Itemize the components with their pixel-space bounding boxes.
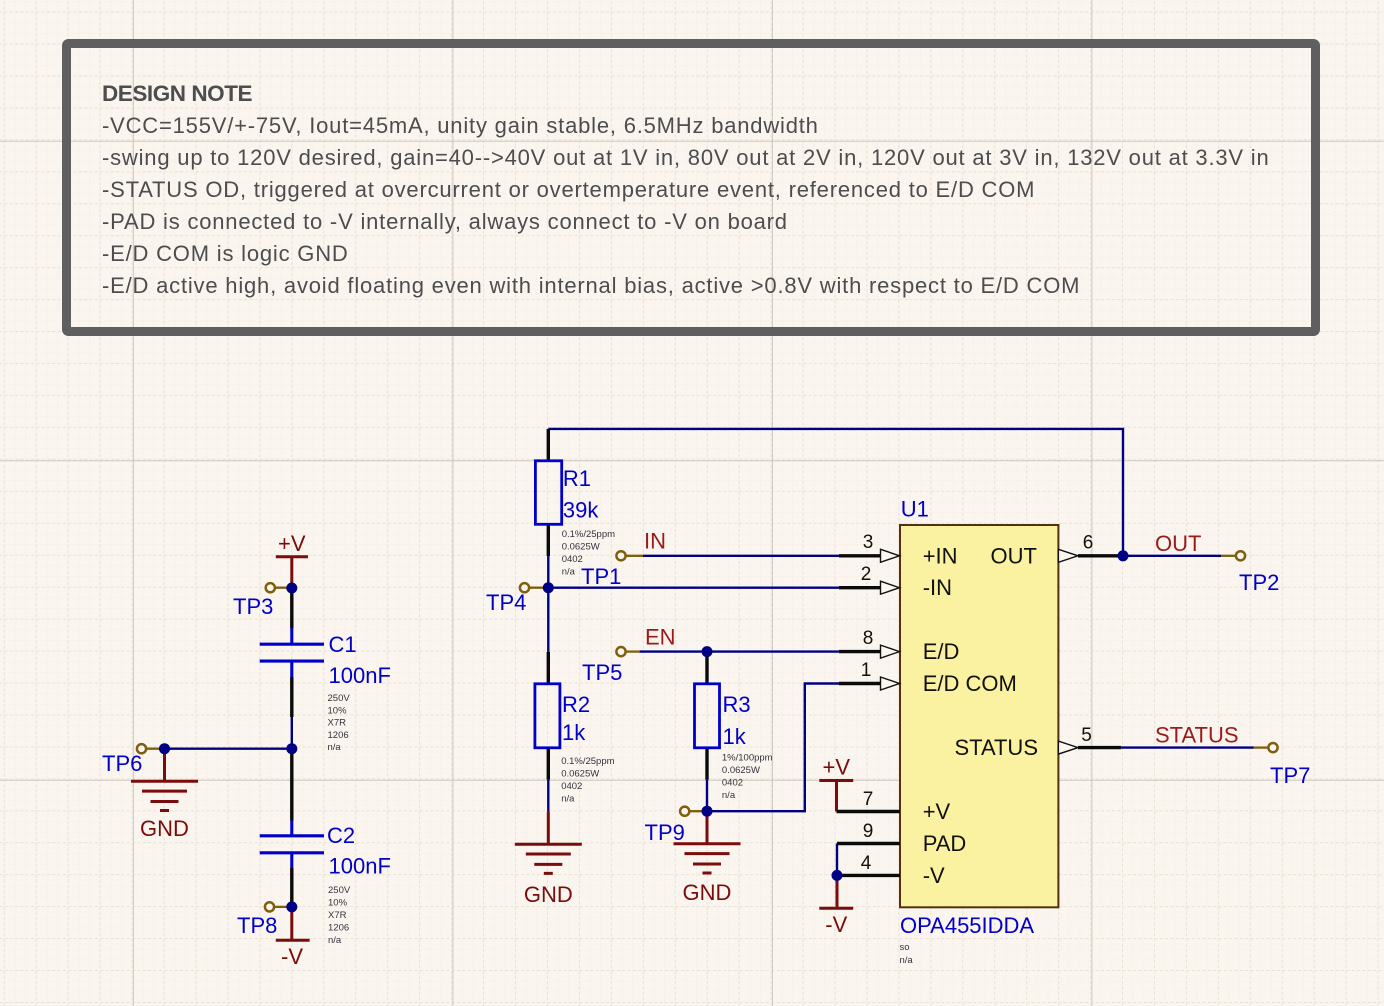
svg-text:C2: C2 xyxy=(327,823,355,848)
pin 8 E/D xyxy=(839,628,959,664)
svg-text:6: 6 xyxy=(1083,533,1094,554)
wire: R3 bottom to TP9 node xyxy=(706,780,708,811)
svg-text:GND: GND xyxy=(683,880,732,905)
ground symbol under R2 xyxy=(515,812,582,907)
pin 6 OUT xyxy=(991,533,1123,569)
ground symbol under R3 xyxy=(674,811,741,905)
svg-text:5: 5 xyxy=(1081,725,1092,746)
svg-text:0402: 0402 xyxy=(561,781,582,792)
svg-text:PAD: PAD xyxy=(923,831,967,856)
power symbol +V (left) xyxy=(276,531,308,588)
svg-text:0402: 0402 xyxy=(562,554,583,565)
svg-text:0.1%/25ppm: 0.1%/25ppm xyxy=(561,756,614,767)
svg-text:n/a: n/a xyxy=(900,955,914,966)
svg-text:n/a: n/a xyxy=(328,935,342,946)
svg-text:39k: 39k xyxy=(563,498,599,523)
svg-text:n/a: n/a xyxy=(561,794,575,805)
svg-text:E/D: E/D xyxy=(923,639,960,664)
op-amp U1 OPA455IDDA xyxy=(900,497,1059,967)
test point TP3 xyxy=(233,583,292,619)
svg-text:2: 2 xyxy=(861,564,872,585)
svg-text:9: 9 xyxy=(863,821,874,842)
capacitor C1 xyxy=(260,628,391,753)
wire: +V node to C1 xyxy=(290,588,293,628)
test point TP1 xyxy=(581,551,643,589)
svg-text:1: 1 xyxy=(861,660,872,681)
resistor R2 xyxy=(535,652,615,805)
svg-text:X7R: X7R xyxy=(328,910,347,921)
svg-text:GND: GND xyxy=(140,816,189,841)
wire: EN net to pin 8 xyxy=(639,650,839,652)
wire: OUT node to TP2 xyxy=(1123,555,1221,557)
junction at TP6/GND xyxy=(159,743,170,754)
svg-text:GND: GND xyxy=(524,882,573,907)
svg-text:OPA455IDDA: OPA455IDDA xyxy=(900,913,1034,938)
wire: -IN node TP4 to pin 2 xyxy=(548,587,839,589)
svg-text:8: 8 xyxy=(863,628,874,649)
wire: E/D COM pin 1 to TP9 node xyxy=(707,684,839,812)
svg-text:-PAD is connected to -V intern: -PAD is connected to -V internally, alwa… xyxy=(102,209,788,234)
pin 9 PAD xyxy=(837,821,966,856)
svg-text:OUT: OUT xyxy=(991,543,1037,568)
test point TP6 xyxy=(102,744,165,776)
svg-text:1k: 1k xyxy=(562,720,586,745)
power symbol +V (right) xyxy=(819,755,853,812)
pin 5 STATUS xyxy=(954,725,1121,760)
svg-text:+IN: +IN xyxy=(923,543,958,568)
svg-text:TP5: TP5 xyxy=(582,660,622,685)
power symbol -V (right) xyxy=(819,875,853,937)
svg-text:0402: 0402 xyxy=(722,778,743,789)
pin 2 -IN xyxy=(839,564,952,600)
svg-text:-STATUS OD, triggered at overc: -STATUS OD, triggered at overcurrent or … xyxy=(102,177,1035,202)
svg-text:TP2: TP2 xyxy=(1239,570,1279,595)
design note box xyxy=(67,44,1316,332)
svg-text:n/a: n/a xyxy=(722,790,736,801)
svg-text:TP9: TP9 xyxy=(645,820,685,845)
wire: feedback from R1 top to OUT node xyxy=(548,429,1123,556)
svg-text:TP7: TP7 xyxy=(1270,763,1310,788)
wire: IN net to pin 3 xyxy=(643,555,839,557)
svg-text:250V: 250V xyxy=(328,693,351,704)
pin 3 +IN xyxy=(839,532,958,568)
svg-text:n/a: n/a xyxy=(328,742,342,753)
svg-text:10%: 10% xyxy=(328,898,348,909)
pin 1 E/D COM xyxy=(839,660,1017,696)
svg-text:TP1: TP1 xyxy=(581,564,621,589)
wire: R2 bottom to GND xyxy=(547,780,549,812)
svg-text:-E/D active high, avoid floati: -E/D active high, avoid floating even wi… xyxy=(102,273,1080,298)
svg-text:7: 7 xyxy=(863,789,874,810)
junction at PAD/-V xyxy=(832,870,843,881)
junction at +V/TP3 xyxy=(286,583,297,594)
junction at -IN/TP4 xyxy=(543,582,554,593)
svg-text:EN: EN xyxy=(645,625,676,650)
wire: C1 to C2 node chain xyxy=(290,677,293,717)
svg-text:n/a: n/a xyxy=(562,567,576,578)
capacitor C2 xyxy=(260,821,391,947)
svg-text:-VCC=155V/+-75V, Iout=45mA, un: -VCC=155V/+-75V, Iout=45mA, unity gain s… xyxy=(102,113,819,138)
test point TP2 xyxy=(1221,551,1279,595)
svg-text:+V: +V xyxy=(823,755,851,780)
svg-text:-IN: -IN xyxy=(923,575,952,600)
svg-text:TP8: TP8 xyxy=(237,913,277,938)
svg-text:-V: -V xyxy=(281,944,303,969)
svg-text:+V: +V xyxy=(278,531,306,556)
junction at EN/R3 top xyxy=(702,646,713,657)
svg-text:OUT: OUT xyxy=(1155,531,1201,556)
svg-text:1%/100ppm: 1%/100ppm xyxy=(722,753,773,764)
svg-text:STATUS: STATUS xyxy=(954,735,1038,760)
svg-text:-swing up to 120V desired, gai: -swing up to 120V desired, gain=40-->40V… xyxy=(102,145,1270,170)
svg-text:+V: +V xyxy=(923,799,951,824)
test point TP5 xyxy=(582,647,640,685)
wire: PAD pin 9 down to -V node xyxy=(836,844,838,876)
wire: TP6 node to C1/C2 node xyxy=(165,748,292,750)
junction at C1/C2/TP6 xyxy=(286,743,297,754)
svg-text:so: so xyxy=(900,942,910,953)
svg-text:1k: 1k xyxy=(723,724,747,749)
svg-text:TP4: TP4 xyxy=(486,590,526,615)
svg-text:0.0625W: 0.0625W xyxy=(722,765,760,776)
svg-text:-V: -V xyxy=(923,863,945,888)
svg-text:1206: 1206 xyxy=(328,923,349,934)
junction at OUT node xyxy=(1118,550,1129,561)
test point TP7 xyxy=(1254,743,1311,788)
svg-text:-V: -V xyxy=(825,912,847,937)
svg-text:0.0625W: 0.0625W xyxy=(562,542,600,553)
svg-text:3: 3 xyxy=(863,532,874,553)
wire: STATUS pin 5 to TP7 xyxy=(1121,746,1254,748)
svg-text:E/D COM: E/D COM xyxy=(923,671,1017,696)
wire: R1 bottom to R2 top xyxy=(547,556,549,652)
svg-text:C1: C1 xyxy=(329,632,357,657)
svg-text:100nF: 100nF xyxy=(329,663,391,688)
svg-text:0.0625W: 0.0625W xyxy=(561,769,599,780)
svg-text:IN: IN xyxy=(644,529,666,554)
svg-text:1206: 1206 xyxy=(328,730,349,741)
test point TP4 xyxy=(486,583,548,615)
pin 7 +V xyxy=(837,789,951,824)
junction at C2/TP8/-V xyxy=(286,901,297,912)
resistor R1 xyxy=(535,429,615,578)
svg-text:R3: R3 xyxy=(723,692,751,717)
power symbol -V (bottom left) xyxy=(276,907,310,969)
resistor R3 xyxy=(695,652,773,801)
svg-text:R2: R2 xyxy=(562,692,590,717)
svg-text:100nF: 100nF xyxy=(329,854,391,879)
svg-text:-E/D COM is logic GND: -E/D COM is logic GND xyxy=(102,241,349,266)
svg-text:X7R: X7R xyxy=(328,718,347,729)
svg-text:U1: U1 xyxy=(901,497,929,522)
ground symbol at TP6 xyxy=(131,749,198,841)
svg-text:250V: 250V xyxy=(328,885,351,896)
test point TP9 xyxy=(645,807,708,845)
pin 4 -V xyxy=(837,853,945,888)
svg-text:4: 4 xyxy=(861,853,872,874)
test point TP8 xyxy=(237,902,292,938)
svg-text:STATUS: STATUS xyxy=(1155,723,1239,748)
svg-text:0.1%/25ppm: 0.1%/25ppm xyxy=(562,529,615,540)
svg-text:R1: R1 xyxy=(563,466,591,491)
svg-text:10%: 10% xyxy=(328,705,348,716)
svg-text:TP6: TP6 xyxy=(102,751,142,776)
svg-text:DESIGN NOTE: DESIGN NOTE xyxy=(102,81,253,106)
svg-text:TP3: TP3 xyxy=(233,594,273,619)
junction at TP9/R3 bottom xyxy=(702,806,713,817)
